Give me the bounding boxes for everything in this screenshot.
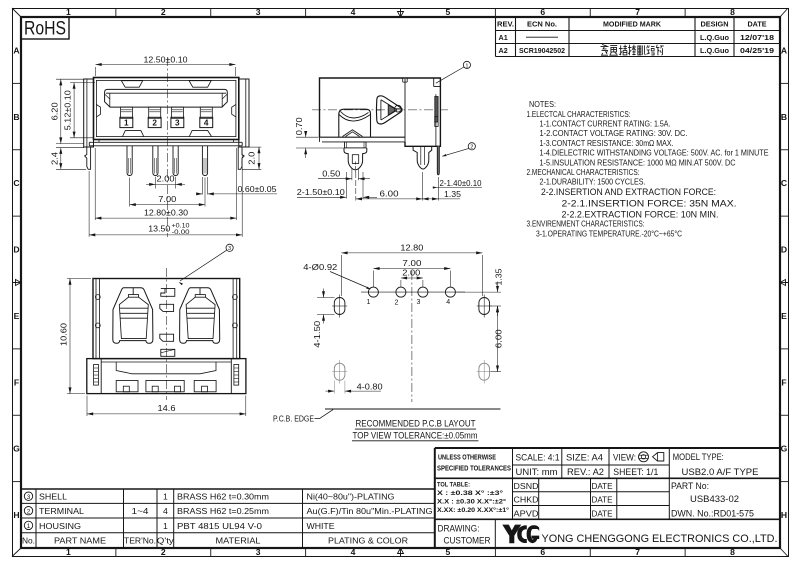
svg-text:2-1.40±0.10: 2-1.40±0.10 <box>440 178 482 188</box>
side view body outline <box>320 78 441 146</box>
dimension 1.35 side <box>437 177 439 201</box>
YCG company logo <box>502 525 539 544</box>
dimension 12.80 pcb <box>341 252 482 254</box>
svg-text:7.00: 7.00 <box>402 258 421 268</box>
view third-angle symbol circle <box>639 452 649 462</box>
svg-text:B: B <box>13 112 19 122</box>
front view tongue <box>105 89 228 107</box>
RoHS box <box>21 17 69 39</box>
svg-text:PBT 4815 UL94 V-0: PBT 4815 UL94 V-0 <box>177 521 262 531</box>
front view shell inner line <box>96 80 236 136</box>
svg-text:6.00: 6.00 <box>493 329 503 348</box>
svg-text:04/25'19: 04/25'19 <box>740 46 774 55</box>
svg-text:4: 4 <box>351 547 356 557</box>
front view pin 2 number box <box>148 117 161 127</box>
svg-text:14.6: 14.6 <box>158 403 176 413</box>
zone tick marks top/bottom <box>115 8 117 17</box>
svg-text:2: 2 <box>470 145 473 151</box>
front view contact 3 <box>171 107 183 118</box>
dimension 10.60 bottom view <box>67 278 91 280</box>
svg-text:4-Ø0.92: 4-Ø0.92 <box>303 262 337 272</box>
bottom view centerline <box>166 268 168 400</box>
svg-text:MODEL TYPE:: MODEL TYPE: <box>673 452 724 462</box>
front view contact 1 <box>120 107 132 118</box>
svg-text:1.ELECTCAL CHARACTERISTICS:: 1.ELECTCAL CHARACTERISTICS: <box>527 109 631 119</box>
svg-text:DRAWING:: DRAWING: <box>438 524 480 534</box>
svg-text:3: 3 <box>175 119 180 128</box>
front view terminal leg 4 <box>202 146 207 176</box>
pcb mount oval top right <box>479 298 490 315</box>
svg-text:HOUSING: HOUSING <box>39 521 81 531</box>
pcb edge line <box>325 408 501 410</box>
svg-text:1-2.CONTACT VOLTAGE RATING:: 1-2.CONTACT VOLTAGE RATING: 30V. DC. <box>540 128 688 138</box>
pcb mount oval bottom left <box>334 363 345 380</box>
svg-text:1.35: 1.35 <box>444 189 461 199</box>
svg-text:No.: No. <box>22 535 35 545</box>
svg-text:DWN. No.:RD01-575: DWN. No.:RD01-575 <box>671 508 754 518</box>
bottom view terminal exit box 2 <box>146 381 184 392</box>
svg-text:3-1.OPERATING TEMPERATURE.-20: 3-1.OPERATING TEMPERATURE.-20°C~+65°C <box>536 229 682 239</box>
side view front dimple bump <box>339 109 371 137</box>
dimension 2.0 right <box>249 146 262 148</box>
svg-text:1.35: 1.35 <box>493 268 503 285</box>
bottom view flange side lock tabs <box>94 364 99 385</box>
svg-text:X.X : ±0.30 X.X°:±2°: X.X : ±0.30 X.X°:±2° <box>437 497 506 505</box>
svg-text:3.ENVIRENMENT CHARACTERISTICS: 3.ENVIRENMENT CHARACTERISTICS: <box>527 219 645 229</box>
pcb view centerline vertical <box>411 271 413 402</box>
side view right peg slot lines <box>420 146 422 165</box>
svg-text:2.MECHANICAL CHARACTERISTICS:: 2.MECHANICAL CHARACTERISTICS: <box>527 167 640 177</box>
dimension 0.50 side peg slot <box>351 169 353 181</box>
svg-text:DATE: DATE <box>592 481 613 491</box>
svg-text:4: 4 <box>163 506 168 516</box>
zone tick marks left/right <box>12 82 21 84</box>
pcb contact hole 2 <box>396 287 406 297</box>
balloon 1 <box>463 61 470 68</box>
svg-text:3: 3 <box>256 547 261 557</box>
dimension 2.4 left <box>56 147 84 149</box>
svg-text:1-1.CONTACT CURRENT RATING:: 1-1.CONTACT CURRENT RATING: 1.5A. <box>540 119 671 129</box>
svg-text:BRASS H62 t=0.30mm: BRASS H62 t=0.30mm <box>177 492 269 502</box>
dimension 1.35 pcb right <box>457 291 502 293</box>
svg-text:WHITE: WHITE <box>307 521 335 531</box>
front view shell inner wall notch left <box>96 105 100 117</box>
front view tongue face line <box>106 92 226 94</box>
side view front dimple chevron <box>343 130 363 137</box>
svg-text:2: 2 <box>27 508 31 515</box>
title block grid <box>435 447 780 449</box>
bottom view latch wing left <box>113 288 153 344</box>
svg-text:RoHS: RoHS <box>24 19 66 40</box>
side view terminal slots right <box>435 97 438 123</box>
svg-text:E: E <box>781 311 787 321</box>
side view front peg slot <box>352 155 358 164</box>
svg-text:1: 1 <box>66 7 71 17</box>
svg-text:0.60±0.05: 0.60±0.05 <box>238 184 277 194</box>
svg-text:DATE: DATE <box>592 508 613 518</box>
side view latch spring slot shaded <box>388 105 395 116</box>
svg-text:X.XX: ±0.20 X.XX°:±1°: X.XX: ±0.20 X.XX°:±1° <box>437 506 509 514</box>
svg-text:A2: A2 <box>499 46 508 55</box>
front view contact 4 <box>200 107 212 118</box>
balloon 2 <box>468 143 475 150</box>
front view terminal leg 1 <box>127 146 132 176</box>
svg-text:H: H <box>781 510 787 520</box>
svg-text:C: C <box>13 178 19 188</box>
svg-text:3: 3 <box>228 246 231 252</box>
dimension 12.50±0.10 top <box>95 67 97 76</box>
side view shell bottom lines <box>320 136 406 138</box>
svg-text:BRASS H62 t=0.25mm: BRASS H62 t=0.25mm <box>177 506 269 516</box>
svg-text:-0.00: -0.00 <box>172 229 191 236</box>
svg-text:12.80±0.30: 12.80±0.30 <box>144 208 188 218</box>
bottom view center tab 2 <box>160 304 174 311</box>
svg-text:6.00: 6.00 <box>380 188 399 198</box>
svg-text:2.00: 2.00 <box>157 174 175 184</box>
bottom view terminal exit box 3 <box>194 381 216 392</box>
svg-text:A: A <box>13 45 19 55</box>
front view pin 1 number box <box>120 117 133 127</box>
svg-text:10.60: 10.60 <box>59 323 69 346</box>
svg-text:USB433-02: USB433-02 <box>690 494 739 504</box>
svg-text:DATE: DATE <box>592 495 613 505</box>
svg-text:3: 3 <box>256 7 261 17</box>
svg-text:MATERIAL: MATERIAL <box>216 535 261 545</box>
front view right board-lock leg <box>238 147 244 169</box>
svg-text:6: 6 <box>540 547 545 557</box>
front view terminal leg 3 <box>173 146 178 176</box>
bottom view left rail <box>95 279 97 359</box>
dimension 4-1.50 pcb <box>317 297 335 299</box>
center mark arrow top <box>400 8 402 13</box>
svg-text:SCR19042502: SCR19042502 <box>519 46 565 55</box>
front view pin 4 number box <box>200 117 213 127</box>
bottom view rail bump circles right <box>233 295 238 300</box>
svg-text:CHKD: CHKD <box>514 495 539 505</box>
svg-text:2: 2 <box>161 547 166 557</box>
front view right side wing <box>239 79 249 147</box>
pcb contact hole 1 <box>368 287 378 297</box>
svg-text:1: 1 <box>163 521 168 531</box>
dimension 6.00 side <box>355 172 357 201</box>
svg-text:APVD: APVD <box>514 508 539 518</box>
bottom view terminal exit box 1 <box>116 381 138 392</box>
svg-text:SPECIFIED TOLERANCES: SPECIFIED TOLERANCES <box>437 465 511 472</box>
bottom view latch wing right <box>180 288 220 344</box>
bottom view body outline <box>93 279 240 359</box>
svg-text:TER'No.: TER'No. <box>124 535 156 545</box>
svg-text:1: 1 <box>465 63 468 69</box>
svg-text:SIZE: A4: SIZE: A4 <box>566 453 603 463</box>
svg-text:5: 5 <box>446 547 451 557</box>
front view terminal leg 2 <box>153 146 158 176</box>
svg-text:L.Q.Guo: L.Q.Guo <box>700 33 730 42</box>
svg-text:2-2.1.INSERTION FORCE: 3: 2-2.1.INSERTION FORCE: 35N MAX. <box>562 199 737 210</box>
svg-text:0.70: 0.70 <box>294 117 304 135</box>
svg-text:1-4.DIELECTRIC WITHSTANDING: 1-4.DIELECTRIC WITHSTANDING VOLTAGE: 500… <box>540 148 769 158</box>
dimension 2.00 pcb <box>401 277 423 279</box>
bottom view flange inner left block <box>100 359 102 394</box>
view cone symbol <box>653 453 664 461</box>
svg-text:UNIT: mm: UNIT: mm <box>516 467 558 477</box>
svg-text:4: 4 <box>204 119 209 128</box>
svg-text:PART No:: PART No: <box>671 481 709 491</box>
svg-text:1: 1 <box>163 492 168 502</box>
svg-text:F: F <box>781 377 786 387</box>
svg-text:F: F <box>14 377 19 387</box>
svg-text:MODIFIED MARK: MODIFIED MARK <box>603 20 662 29</box>
svg-text:1~4: 1~4 <box>132 506 149 516</box>
side view shell/housing divider <box>404 79 406 146</box>
svg-text:CUSTOMER: CUSTOMER <box>444 536 491 546</box>
svg-text:2: 2 <box>161 7 166 17</box>
balloon 3 <box>226 244 233 251</box>
svg-text:12.50±0.10: 12.50±0.10 <box>144 54 188 64</box>
dimension 4-0.80 pcb <box>333 381 335 394</box>
svg-text:3: 3 <box>417 299 421 306</box>
svg-text:P.C.B. EDGE: P.C.B. EDGE <box>273 413 314 423</box>
svg-text:1: 1 <box>27 523 31 530</box>
svg-text:ECN No.: ECN No. <box>527 20 557 29</box>
dimension 7.00 pcb <box>373 268 450 270</box>
svg-text:2: 2 <box>395 299 399 306</box>
svg-text:12/07'18: 12/07'18 <box>740 33 774 42</box>
svg-text:1: 1 <box>66 547 71 557</box>
svg-text:4: 4 <box>446 299 450 306</box>
svg-text:TOP VIEW TOLERANCE:±0.05mm: TOP VIEW TOLERANCE:±0.05mm <box>353 431 478 441</box>
dimension 7.00 legs <box>129 178 131 207</box>
side view front dimple saddle curves <box>341 112 369 119</box>
svg-text:VIEW:: VIEW: <box>613 453 636 463</box>
side view shell rivet dimple <box>395 105 402 112</box>
material row shell <box>24 492 32 500</box>
material row terminal <box>24 507 32 515</box>
side view shell top right step <box>433 78 435 87</box>
svg-text:RECOMMENDED P.C.B LAYOUT: RECOMMENDED P.C.B LAYOUT <box>356 418 476 428</box>
dimension 5.12±0.10 left <box>70 82 95 84</box>
dimension 2-1.50±0.10 side <box>345 172 347 199</box>
bottom view center tab 3 <box>160 334 174 341</box>
side view latch spring mid notch <box>377 109 381 111</box>
front view top dimple right <box>189 81 211 88</box>
svg-text:X : ±0.38 X° :±3°: X : ±0.38 X° :±3° <box>437 489 503 497</box>
side view terminal pin side <box>437 146 439 175</box>
side view right housing peg <box>413 146 432 169</box>
front view pin 3 number box <box>171 117 184 127</box>
svg-text:Au(G.F)/Tin 80u"Min.-PLATING: Au(G.F)/Tin 80u"Min.-PLATING <box>307 506 433 516</box>
front view bottom dimple left <box>123 131 144 137</box>
svg-text:G: G <box>13 444 20 454</box>
front view top dimple left <box>121 81 142 88</box>
side view front board peg <box>344 148 367 170</box>
side view housing back face line <box>435 94 437 146</box>
svg-text:2-1.DURABILITY: 1500 CYCLES.: 2-1.DURABILITY: 1500 CYCLES. <box>540 176 646 186</box>
svg-text:6.20: 6.20 <box>49 102 59 120</box>
svg-text:1: 1 <box>124 119 129 128</box>
svg-text:3: 3 <box>27 494 31 501</box>
bottom view center tab 4 <box>161 349 175 356</box>
pcb contact hole 3 <box>418 287 428 297</box>
svg-text:4: 4 <box>351 7 356 17</box>
svg-text:2-2.INSERTION AND EXTRACTION: 2-2.INSERTION AND EXTRACTION FORCE: <box>541 187 716 198</box>
svg-text:2-1.50±0.10: 2-1.50±0.10 <box>297 187 345 197</box>
dimension 12.80±0.30 <box>94 148 96 220</box>
svg-text:TOL TABLE:: TOL TABLE: <box>437 481 470 488</box>
front view centerline <box>167 57 169 237</box>
material row housing <box>24 521 32 529</box>
svg-text:L.Q.Guo: L.Q.Guo <box>700 46 730 55</box>
revision table grid <box>496 16 781 18</box>
svg-text:Q'ty: Q'ty <box>157 535 175 545</box>
dimension 0.60±0.05 leg4 <box>201 177 203 195</box>
pcb contact hole 4 <box>445 287 455 297</box>
svg-text:2.0: 2.0 <box>246 151 256 164</box>
svg-text:2: 2 <box>152 119 157 128</box>
svg-text:DSND: DSND <box>514 481 539 491</box>
svg-text:NOTES:: NOTES: <box>529 99 556 109</box>
side view latch spring outer <box>376 96 402 124</box>
svg-text:8: 8 <box>730 7 735 17</box>
bottom view center tab 1 <box>161 288 175 296</box>
svg-text:1: 1 <box>367 299 371 306</box>
dimension 14.6 bottom view <box>86 396 88 417</box>
svg-text:7.00: 7.00 <box>158 194 176 204</box>
svg-text:PART NAME: PART NAME <box>54 535 106 545</box>
front view bottom dimple right <box>189 131 211 137</box>
dimension 6.20 left <box>56 78 92 80</box>
dimension 0.70 side <box>296 136 319 138</box>
svg-text:4-0.80: 4-0.80 <box>357 381 383 391</box>
svg-text:A1: A1 <box>499 33 508 42</box>
svg-text:5: 5 <box>446 7 451 17</box>
dimension 13.50 +0.10/-0.00 <box>88 171 90 237</box>
bottom view right rail <box>232 279 234 359</box>
svg-text:2.4: 2.4 <box>49 152 59 165</box>
svg-text:DATE: DATE <box>748 20 767 29</box>
pcb mount oval bottom right <box>479 363 490 380</box>
svg-text:G: G <box>781 444 788 454</box>
frame corner diagonals <box>12 8 21 17</box>
svg-text:D: D <box>781 245 787 255</box>
svg-text:12.80: 12.80 <box>400 242 423 252</box>
center mark arrow left <box>12 282 17 284</box>
svg-text:0.50: 0.50 <box>322 168 340 178</box>
front view shell outer <box>94 78 239 140</box>
front view left board-lock leg <box>85 147 91 169</box>
svg-text:4-1.50: 4-1.50 <box>312 320 322 347</box>
side view front peg collar <box>345 142 367 148</box>
front view contact 2 <box>149 107 161 118</box>
pcb view contact row line <box>361 291 465 293</box>
svg-text:1-3.CONTACT RESISTANCE: 30mΩ: 1-3.CONTACT RESISTANCE: 30mΩ MAX. <box>540 138 674 148</box>
svg-text:DESIGN: DESIGN <box>701 20 729 29</box>
svg-text:D: D <box>13 245 19 255</box>
svg-text:SCALE: 4:1: SCALE: 4:1 <box>516 453 560 463</box>
svg-text:E: E <box>14 311 20 321</box>
svg-text:USB2.0 A/F TYPE: USB2.0 A/F TYPE <box>682 467 759 477</box>
svg-text:SHELL: SHELL <box>39 492 67 502</box>
front view left side wing <box>84 79 94 147</box>
svg-text:7: 7 <box>635 7 640 17</box>
svg-text:2.00: 2.00 <box>402 268 420 278</box>
svg-text:1-5.INSULATION RESISTANCE: 1: 1-5.INSULATION RESISTANCE: 1000 MΩ MIN.A… <box>540 157 736 167</box>
revision row A2 chinese modified mark glyphs <box>601 44 609 55</box>
svg-text:H: H <box>13 510 19 520</box>
pcb mount oval top left <box>334 298 345 315</box>
side view centerline <box>312 109 448 111</box>
front view shell inner wall notch right <box>232 105 236 117</box>
svg-text:TERMINAL: TERMINAL <box>39 506 84 516</box>
dimension 6.00 pcb right <box>491 371 502 373</box>
svg-text:13.50: 13.50 <box>148 224 170 234</box>
bottom view flange outline <box>87 359 246 394</box>
svg-text:C: C <box>781 178 787 188</box>
svg-text:8: 8 <box>730 547 735 557</box>
svg-text:REV.: REV. <box>497 20 514 29</box>
svg-text:UNLESS OTHERWISE: UNLESS OTHERWISE <box>438 454 496 461</box>
svg-text:YONG CHENGGONG ELECTRONICS: YONG CHENGGONG ELECTRONICS CO.,LTD. <box>542 533 778 545</box>
svg-text:SHEET: 1/1: SHEET: 1/1 <box>613 467 658 477</box>
material table grid <box>21 488 435 490</box>
svg-text:A: A <box>781 45 787 55</box>
center mark arrow bottom <box>400 552 402 557</box>
svg-text:Ni(40~80u")-PLATING: Ni(40~80u")-PLATING <box>307 492 395 502</box>
front view bottom flange <box>89 141 242 143</box>
bottom view flange inner band <box>101 361 231 363</box>
bottom view rail bump circles left <box>95 295 100 300</box>
svg-text:B: B <box>781 112 787 122</box>
center mark arrow right <box>785 282 789 284</box>
dimension 2-1.40±0.10 side <box>437 187 483 189</box>
dimension 2.00 legs <box>154 177 156 189</box>
svg-text:REV.: A2: REV.: A2 <box>567 467 604 477</box>
svg-text:5.12±0.10: 5.12±0.10 <box>63 90 73 130</box>
svg-text:PLATING & COLOR: PLATING & COLOR <box>328 535 408 545</box>
svg-text:7: 7 <box>635 547 640 557</box>
side view latch spring inner <box>381 100 397 120</box>
svg-text:6: 6 <box>540 7 545 17</box>
